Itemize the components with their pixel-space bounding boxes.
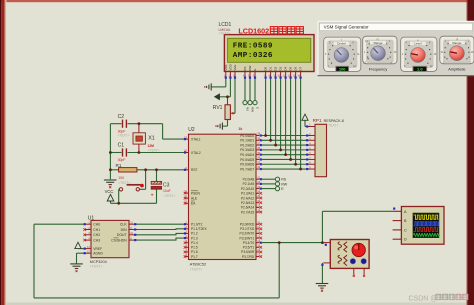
- svg-text:<TEXT>: <TEXT>: [219, 31, 231, 35]
- svg-text:XTAL1: XTAL1: [191, 137, 201, 141]
- svg-text:C: C: [404, 228, 407, 232]
- wire signal source ground pin to ground: [321, 263, 323, 283]
- wire U1 CS to P1.3: [134, 238, 185, 240]
- svg-text:MCP3204: MCP3204: [90, 260, 107, 264]
- svg-text:1.0: 1.0: [417, 66, 423, 71]
- wire C3 bottom stub to VCC row: [156, 189, 158, 203]
- svg-text:DOUT: DOUT: [117, 233, 128, 237]
- svg-text:E: E: [255, 107, 259, 109]
- svg-text:<TEXT>: <TEXT>: [164, 194, 176, 198]
- svg-text:CH1: CH1: [93, 228, 100, 232]
- svg-text:P0.2/AD2: P0.2/AD2: [240, 143, 254, 147]
- wire P2.0 to RS terminal: [262, 178, 275, 180]
- wire P3.4/T0 signal net to signal source: [262, 242, 322, 244]
- power VCC terminal: [105, 189, 114, 201]
- svg-text:<TEXT>: <TEXT>: [190, 268, 203, 272]
- wire LCD VDD to power: [219, 77, 230, 96]
- svg-text:P1.6: P1.6: [191, 250, 198, 254]
- wire LCD D0 to P0.0 bus vertical: [265, 77, 267, 135]
- svg-text:C1: C1: [118, 143, 125, 149]
- LCD display LCD1 LM016L: [224, 35, 314, 72]
- svg-text:P0.6/AD6: P0.6/AD6: [240, 163, 254, 167]
- svg-text:Level: Level: [414, 42, 422, 46]
- svg-text:CH2: CH2: [93, 233, 100, 237]
- wire bottom run: [34, 297, 279, 299]
- svg-text:AT89C52: AT89C52: [190, 262, 207, 267]
- watermark: [409, 294, 469, 303]
- svg-text:P0.3/AD3: P0.3/AD3: [240, 148, 254, 152]
- ADC U1 MCP3204: [83, 215, 136, 268]
- svg-text:CSDN @: CSDN @: [409, 296, 438, 303]
- reset button: [119, 184, 144, 191]
- crystal X1: [133, 124, 160, 153]
- wire P0.4 row to RP1 pin: [262, 154, 308, 156]
- svg-text:<TEXT>: <TEXT>: [148, 148, 160, 152]
- node RW terminal (LCD side): [248, 101, 254, 113]
- ground (crystal caps / R1): [104, 180, 117, 188]
- svg-text:C2: C2: [118, 114, 125, 120]
- LCD pins 1-14: [224, 63, 303, 78]
- svg-text:12M: 12M: [147, 144, 154, 148]
- svg-text:P3.2/INT0: P3.2/INT0: [240, 232, 255, 236]
- svg-text:P0.0/AD0: P0.0/AD0: [240, 134, 254, 138]
- svg-text:RS: RS: [243, 66, 247, 70]
- svg-text:P2.3/A11: P2.3/A11: [241, 192, 254, 196]
- svg-text:R1: R1: [116, 163, 122, 168]
- svg-text:P3.4/T0: P3.4/T0: [243, 241, 255, 245]
- capacitor C1: [118, 143, 127, 163]
- VSM Signal Generator panel: [318, 21, 474, 76]
- wire C3 top stub to RST row: [156, 170, 158, 182]
- svg-text:100: 100: [339, 66, 346, 71]
- wire RV1 bottom to ground: [223, 120, 228, 127]
- svg-text:D3: D3: [279, 66, 283, 70]
- wire LCD RW to terminal: [249, 77, 251, 100]
- svg-text:C3: C3: [163, 183, 170, 189]
- wire P0.3 row to RP1 pin: [262, 149, 308, 151]
- svg-text:+: +: [151, 192, 154, 197]
- wire LCD D7 to P0.7 bus vertical: [300, 77, 302, 169]
- svg-text:RW: RW: [281, 182, 288, 186]
- wire RP1 pin1 to power: [305, 120, 308, 126]
- svg-text:VSM Signal Generator: VSM Signal Generator: [324, 25, 370, 30]
- svg-text:P3.0/RXD: P3.0/RXD: [240, 223, 255, 227]
- svg-text:P1.7: P1.7: [191, 255, 198, 259]
- svg-text:Frequency: Frequency: [369, 66, 387, 71]
- wire XTAL1 net: C2 row to U2 XTAL1: [110, 124, 185, 139]
- wire U1 DOUT to P1.2: [134, 233, 185, 234]
- svg-text:CH0: CH0: [93, 223, 100, 227]
- wire P0.1 row to RP1 pin: [262, 139, 308, 141]
- svg-text:P2.5/A13: P2.5/A13: [241, 201, 255, 205]
- node RW terminal (U2 side): [275, 182, 287, 187]
- svg-text:P2.6/A14: P2.6/A14: [241, 206, 255, 210]
- svg-text:P0.7/AD7: P0.7/AD7: [240, 167, 254, 171]
- svg-text:RESPACK-8: RESPACK-8: [324, 119, 344, 123]
- ground below signal source: [316, 284, 329, 292]
- svg-text:RS: RS: [245, 107, 249, 111]
- svg-text:30pF: 30pF: [118, 158, 126, 162]
- svg-text:RW: RW: [250, 107, 254, 112]
- svg-text:AGND: AGND: [93, 252, 103, 256]
- potentiometer RV1: [213, 105, 243, 131]
- wire U1 CLK to P1.0: [134, 223, 185, 225]
- svg-text:VDD: VDD: [229, 63, 233, 70]
- wire signal net down to bottom run: [278, 243, 280, 298]
- svg-text:D2: D2: [274, 66, 278, 70]
- wire VCC row: [111, 201, 157, 203]
- svg-text:VSS: VSS: [224, 65, 228, 71]
- svg-text:CH3: CH3: [93, 238, 100, 242]
- wire XTAL2 net: C1 row to U2 XTAL2: [110, 152, 185, 154]
- microcontroller U2 AT89C52: [188, 127, 256, 271]
- svg-text:P2.0/A8: P2.0/A8: [243, 178, 255, 182]
- svg-text:RS: RS: [281, 178, 287, 182]
- svg-text:10uF: 10uF: [163, 189, 171, 193]
- resistor R1: [116, 163, 137, 185]
- svg-text:P1.0/T2: P1.0/T2: [191, 223, 203, 227]
- svg-text:FRE:0589: FRE:0589: [233, 43, 273, 51]
- power terminal (LCD VDD, pointing left): [214, 94, 219, 100]
- svg-text:RW: RW: [248, 65, 252, 70]
- wire LCD VEE to RV1 wiper: [232, 77, 235, 113]
- svg-text:D0: D0: [264, 66, 268, 70]
- svg-text:P1.4: P1.4: [191, 241, 198, 245]
- svg-text:100: 100: [118, 176, 124, 180]
- resistor pack RP1 RESPACK-8: [306, 118, 344, 177]
- wire P0.5 row to RP1 pin: [262, 158, 308, 160]
- wire RV1 top stub to VDD row: [227, 97, 229, 105]
- capacitor C3 (10uF electrolytic): [151, 181, 176, 197]
- ground at U1 AGND: [70, 264, 83, 272]
- wire LCD D4 to P0.4 bus vertical: [285, 77, 287, 154]
- svg-text:X1: X1: [148, 136, 155, 142]
- wire left riser to U1 CH0: [34, 224, 85, 298]
- power terminal at U1 VREF: [75, 242, 81, 248]
- LCD1 reference label: [219, 22, 232, 36]
- wire P0.0 row to RP1 pin: [262, 135, 308, 137]
- wire P0.2 row to RP1 pin: [262, 144, 308, 146]
- svg-text:<TEXT>: <TEXT>: [118, 134, 130, 138]
- svg-text:AMP:0326: AMP:0326: [233, 52, 273, 60]
- svg-text:P0.4/AD4: P0.4/AD4: [240, 153, 254, 157]
- svg-text:D1: D1: [269, 66, 273, 70]
- svg-text:LCD1602: LCD1602: [238, 27, 269, 36]
- svg-text:RP1: RP1: [313, 118, 322, 123]
- node RS terminal (U2 side): [275, 177, 286, 182]
- wire signal to oscilloscope channel A: [322, 211, 392, 242]
- svg-text:CS/SHDN: CS/SHDN: [111, 238, 127, 242]
- svg-text:VCC: VCC: [105, 189, 114, 194]
- svg-text:P1.1/T2EX: P1.1/T2EX: [191, 227, 208, 231]
- node E terminal (U2 side): [275, 187, 284, 192]
- svg-text:D6: D6: [294, 66, 298, 70]
- svg-text:Range: Range: [374, 41, 383, 45]
- svg-text:P1.5: P1.5: [191, 246, 198, 250]
- svg-text:<TEXT>: <TEXT>: [327, 124, 339, 128]
- wire LCD D1 to P0.1 bus vertical: [270, 77, 272, 140]
- power terminal above RP1 pin 1: [302, 114, 308, 120]
- svg-text:U2: U2: [188, 127, 195, 133]
- signal generator instrument (function source): [321, 240, 369, 277]
- svg-text:P2.1/A9: P2.1/A9: [243, 182, 255, 186]
- wire LCD D3 to P0.3 bus vertical: [280, 77, 282, 149]
- svg-text:P3.7/RD: P3.7/RD: [242, 255, 255, 259]
- wire U1 AGND to ground: [77, 253, 86, 263]
- U2 right pins P0 P2 P3: [240, 132, 263, 259]
- wire button right lead to RST: [140, 170, 146, 190]
- svg-text:RV1: RV1: [213, 105, 223, 111]
- svg-text:VEE: VEE: [233, 65, 237, 71]
- svg-text:P2.2/A10: P2.2/A10: [241, 187, 255, 191]
- oscilloscope: [393, 207, 444, 245]
- svg-text:P3.6/WR: P3.6/WR: [241, 250, 255, 254]
- svg-text:D7: D7: [299, 66, 303, 70]
- title text LCD1602 display module (red): [238, 27, 303, 36]
- svg-text:D: D: [404, 238, 407, 242]
- wire LCD D6 to P0.6 bus vertical: [295, 77, 297, 164]
- svg-text:1k: 1k: [238, 127, 242, 131]
- wire U1 DIN to P1.1: [134, 228, 185, 231]
- wire ground column left of C1/C2: [109, 124, 111, 180]
- ground (RV1 bottom, sideways): [215, 123, 222, 130]
- wire LCD E to terminal: [254, 77, 256, 100]
- svg-text:RST: RST: [191, 168, 198, 172]
- svg-text:PSEN: PSEN: [191, 191, 201, 195]
- svg-text:Amplitude: Amplitude: [448, 66, 465, 71]
- svg-text:P3.5/T1: P3.5/T1: [243, 246, 255, 250]
- svg-text:D4: D4: [284, 66, 288, 70]
- wire RST net row: [110, 169, 185, 171]
- svg-text:XTAL2: XTAL2: [191, 151, 201, 155]
- svg-text:U1: U1: [88, 215, 95, 221]
- svg-text:CLK: CLK: [120, 223, 127, 227]
- svg-text:P0.5/AD5: P0.5/AD5: [240, 158, 254, 162]
- svg-text:P3.1/TXD: P3.1/TXD: [240, 227, 255, 231]
- svg-text:P3.3/INT1: P3.3/INT1: [240, 236, 255, 240]
- junction dots: [109, 95, 324, 244]
- U2 left pins XTAL1 XTAL2 RST PSEN ALE EA P1.0-P1.7: [184, 135, 208, 259]
- wire P2.2 to E terminal: [262, 188, 275, 190]
- svg-text:P2.7/A15: P2.7/A15: [241, 210, 255, 214]
- svg-text:P0.1/AD1: P0.1/AD1: [240, 139, 254, 143]
- wire P0.7 row to RP1 pin: [262, 168, 308, 170]
- svg-text:P1.3: P1.3: [191, 236, 198, 240]
- svg-text:DIN: DIN: [121, 228, 127, 232]
- node RS terminal (LCD side): [243, 101, 249, 112]
- wire P0.6 row to RP1 pin: [262, 163, 308, 165]
- wire LCD D5 to P0.5 bus vertical: [290, 77, 292, 159]
- svg-text:<TEXT>: <TEXT>: [90, 265, 103, 269]
- ground (LCD VSS, sideways): [204, 83, 211, 90]
- wire button left lead to VCC row: [118, 189, 121, 203]
- svg-text:Centre: Centre: [337, 42, 346, 46]
- svg-text:P2.4/A12: P2.4/A12: [241, 196, 255, 200]
- svg-text:D5: D5: [289, 66, 293, 70]
- svg-text:ALE: ALE: [191, 197, 198, 201]
- svg-text:Range: Range: [452, 41, 461, 45]
- svg-text:VREF: VREF: [93, 247, 102, 251]
- wire LCD VSS to ground: [212, 77, 226, 87]
- svg-text:E: E: [253, 69, 257, 71]
- wire LCD D2 to P0.2 bus vertical: [275, 77, 277, 145]
- capacitor C2: [118, 114, 130, 138]
- wire P2.1 to RW terminal: [262, 183, 275, 185]
- wire LCD RS to terminal: [244, 77, 246, 100]
- node E terminal (LCD side): [253, 101, 259, 110]
- svg-text:P1.2: P1.2: [191, 232, 198, 236]
- wire U1 VREF to power: [78, 248, 85, 250]
